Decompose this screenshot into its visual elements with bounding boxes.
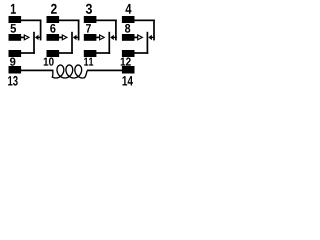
fixed contact arrowhead on wire from pin 1 bbox=[35, 35, 39, 40]
terminal 10 label bbox=[44, 58, 49, 66]
terminal 3 label bbox=[86, 4, 92, 14]
terminal 9 pin pad bbox=[9, 50, 22, 57]
wire: pin 3 right then down to fixed contact bbox=[96, 20, 117, 22]
movable contact arm of pin 5 bbox=[21, 37, 25, 39]
wire: pin 4 right then down to fixed contact bbox=[134, 20, 155, 22]
terminal 1 label bbox=[11, 4, 16, 14]
fixed contact arrowhead on wire from pin 2 bbox=[73, 35, 77, 40]
terminal 12 pin pad bbox=[122, 50, 135, 57]
wire: pin 1 right then down to fixed contact bbox=[21, 20, 42, 22]
terminal 2 label bbox=[51, 4, 57, 14]
contact bar wire down to common pin 9 bbox=[33, 32, 35, 54]
movable contact arrowhead, hollow (pin 8) bbox=[138, 35, 143, 40]
terminal 1 pin pad bbox=[9, 16, 22, 23]
wire: common pin 9 to contact bar bbox=[21, 52, 35, 54]
movable contact arm of pin 8 bbox=[134, 37, 138, 39]
terminal 4 pin pad bbox=[122, 16, 135, 23]
wire: common pin 10 to contact bar bbox=[59, 52, 73, 54]
terminal 9 label bbox=[10, 58, 15, 66]
terminal 13 pin pad bbox=[9, 66, 22, 74]
movable contact arrowhead, hollow (pin 6) bbox=[62, 35, 67, 40]
terminal 13 label bbox=[8, 76, 12, 85]
terminal 5 label bbox=[10, 24, 16, 33]
terminal 14 pin pad bbox=[122, 66, 135, 74]
wire: pin 13 to coil bbox=[21, 70, 54, 72]
wire: pin 2 right then down to fixed contact bbox=[59, 20, 80, 22]
terminal 11 pin pad bbox=[84, 50, 97, 57]
contact bar wire down to common pin 11 bbox=[108, 32, 110, 54]
terminal 8 pin pad bbox=[122, 34, 135, 41]
wire: coil to pin 14 bbox=[87, 70, 122, 72]
terminal 3 pin pad bbox=[84, 16, 97, 23]
contact bar wire down to common pin 10 bbox=[71, 32, 73, 54]
wire: common pin 12 to contact bar bbox=[134, 52, 148, 54]
terminal 8 label bbox=[125, 24, 130, 33]
coil L (relay coil, 3 cursive loops) bbox=[52, 65, 87, 78]
terminal 12 label bbox=[121, 58, 126, 66]
contact bar wire down to common pin 12 bbox=[147, 32, 149, 54]
movable contact arm of pin 7 bbox=[96, 37, 100, 39]
terminal 11 label bbox=[84, 58, 88, 66]
fixed contact arrowhead on wire from pin 4 bbox=[148, 35, 152, 40]
terminal 4 label bbox=[125, 4, 131, 14]
terminal 7 pin pad bbox=[84, 34, 97, 41]
terminal 6 pin pad bbox=[47, 34, 60, 41]
terminal 5 pin pad bbox=[9, 34, 22, 41]
terminal 14 label bbox=[122, 76, 127, 85]
terminal 6 label bbox=[50, 24, 55, 33]
fixed contact arrowhead on wire from pin 3 bbox=[110, 35, 114, 40]
terminal 10 pin pad bbox=[47, 50, 60, 57]
terminal 2 pin pad bbox=[47, 16, 60, 23]
movable contact arm of pin 6 bbox=[59, 37, 63, 39]
wire: common pin 11 to contact bar bbox=[96, 52, 110, 54]
movable contact arrowhead, hollow (pin 7) bbox=[100, 35, 105, 40]
terminal 7 label bbox=[86, 24, 91, 33]
movable contact arrowhead, hollow (pin 5) bbox=[24, 35, 29, 40]
